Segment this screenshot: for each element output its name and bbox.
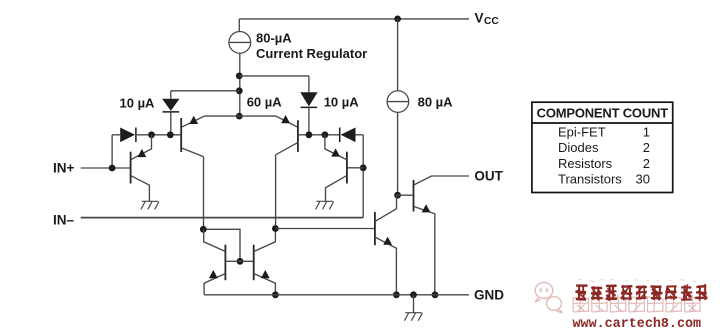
svg-text:Epi-FET: Epi-FET — [558, 125, 606, 140]
svg-text:COMPONENT COUNT: COMPONENT COUNT — [537, 106, 669, 121]
svg-text:30: 30 — [636, 172, 650, 187]
svg-text:80 µA: 80 µA — [418, 94, 454, 109]
svg-text:Current Regulator: Current Regulator — [256, 46, 367, 61]
svg-text:2: 2 — [643, 156, 650, 171]
svg-text:CC: CC — [484, 16, 499, 27]
svg-text:V: V — [475, 10, 484, 25]
svg-text:80-µA: 80-µA — [256, 30, 292, 45]
svg-text:10 µA: 10 µA — [324, 95, 360, 110]
svg-text:IN–: IN– — [53, 212, 75, 227]
svg-text:Transistors: Transistors — [558, 172, 622, 187]
svg-text:OUT: OUT — [474, 169, 503, 184]
svg-text:60 µA: 60 µA — [247, 95, 283, 110]
svg-text:10 µA: 10 µA — [120, 96, 156, 111]
svg-text:2: 2 — [643, 140, 650, 155]
svg-text:GND: GND — [474, 287, 504, 302]
svg-text:Resistors: Resistors — [558, 156, 613, 171]
svg-text:IN+: IN+ — [53, 161, 75, 176]
svg-text:1: 1 — [643, 125, 650, 140]
svg-text:Diodes: Diodes — [558, 140, 599, 155]
svg-text:www.cartech8.com: www.cartech8.com — [573, 317, 702, 331]
